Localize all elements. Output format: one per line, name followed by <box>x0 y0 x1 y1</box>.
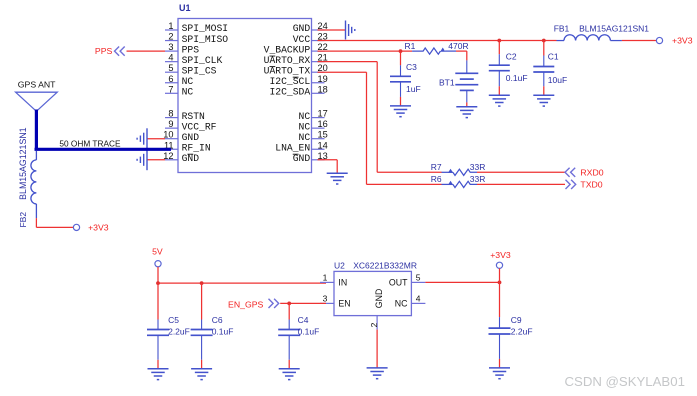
svg-text:5V: 5V <box>152 247 163 257</box>
svg-text:3: 3 <box>323 293 328 303</box>
svg-text:4: 4 <box>168 53 173 63</box>
svg-text:C1: C1 <box>548 52 559 62</box>
svg-text:SPI_MISO: SPI_MISO <box>182 34 229 45</box>
svg-text:0.1uF: 0.1uF <box>212 327 234 337</box>
svg-text:I2C_SDA: I2C_SDA <box>269 87 310 98</box>
svg-text:C9: C9 <box>511 315 522 325</box>
svg-text:5: 5 <box>168 63 173 73</box>
svg-text:16: 16 <box>318 119 328 129</box>
svg-text:XC6221B332MR: XC6221B332MR <box>353 260 417 270</box>
svg-text:0.1uF: 0.1uF <box>298 327 320 337</box>
svg-text:NC: NC <box>299 132 311 143</box>
svg-text:R7: R7 <box>431 162 442 172</box>
svg-text:2: 2 <box>369 322 379 327</box>
svg-text:FB1: FB1 <box>554 23 570 33</box>
svg-text:RXD0: RXD0 <box>580 168 603 178</box>
svg-text:4: 4 <box>416 293 421 303</box>
svg-text:BT1: BT1 <box>439 77 455 87</box>
svg-text:GND: GND <box>374 289 384 309</box>
svg-text:3: 3 <box>168 42 173 52</box>
svg-text:CSDN @SKYLAB01: CSDN @SKYLAB01 <box>565 374 685 389</box>
svg-text:1: 1 <box>323 272 328 282</box>
svg-text:R6: R6 <box>431 174 442 184</box>
svg-text:1: 1 <box>168 21 173 31</box>
svg-text:V_BACKUP: V_BACKUP <box>264 44 311 55</box>
svg-text:18: 18 <box>318 84 328 94</box>
svg-text:C4: C4 <box>298 315 309 325</box>
svg-text:2: 2 <box>168 32 173 42</box>
svg-text:SPI_CLK: SPI_CLK <box>182 55 223 66</box>
svg-text:PPS: PPS <box>95 46 113 56</box>
svg-text:C2: C2 <box>506 52 517 62</box>
svg-text:R1: R1 <box>405 41 416 51</box>
svg-text:33R: 33R <box>470 174 486 184</box>
svg-text:RF_IN: RF_IN <box>182 142 211 153</box>
svg-text:15: 15 <box>318 130 328 140</box>
svg-text:RSTN: RSTN <box>182 111 205 122</box>
svg-text:C5: C5 <box>168 315 179 325</box>
svg-text:9: 9 <box>168 119 173 129</box>
svg-text:U2: U2 <box>334 260 345 270</box>
svg-text:NC: NC <box>395 299 408 309</box>
svg-text:GPS ANT: GPS ANT <box>18 80 56 90</box>
svg-text:NC: NC <box>299 111 311 122</box>
svg-text:C3: C3 <box>406 62 417 72</box>
svg-text:NC: NC <box>182 76 194 87</box>
svg-text:10uF: 10uF <box>548 75 567 85</box>
svg-text:470R: 470R <box>448 41 468 51</box>
svg-text:50 OHM TRACE: 50 OHM TRACE <box>59 139 121 149</box>
svg-text:7: 7 <box>168 84 173 94</box>
svg-text:5: 5 <box>416 272 421 282</box>
svg-text:NC: NC <box>182 87 194 98</box>
svg-text:VCC_RF: VCC_RF <box>182 121 217 132</box>
svg-text:IN: IN <box>338 278 347 288</box>
svg-text:SPI_CS: SPI_CS <box>182 65 217 76</box>
svg-text:14: 14 <box>318 140 328 150</box>
svg-text:19: 19 <box>318 74 328 84</box>
svg-text:+3V3: +3V3 <box>672 36 693 46</box>
svg-text:1uF: 1uF <box>406 84 421 94</box>
svg-text:OUT: OUT <box>389 278 408 288</box>
svg-text:2.2uF: 2.2uF <box>511 327 533 337</box>
svg-text:C6: C6 <box>212 315 223 325</box>
svg-text:EN: EN <box>338 299 350 309</box>
svg-text:+3V3: +3V3 <box>490 250 511 260</box>
svg-text:BLM15AG121SN1: BLM15AG121SN1 <box>18 127 28 199</box>
svg-text:PPS: PPS <box>182 44 200 55</box>
svg-text:8: 8 <box>168 109 173 119</box>
svg-text:VCC: VCC <box>293 34 311 45</box>
svg-text:EN_GPS: EN_GPS <box>228 300 263 310</box>
svg-text:LNA_EN: LNA_EN <box>275 142 310 153</box>
svg-text:TXD0: TXD0 <box>580 180 602 190</box>
svg-text:6: 6 <box>168 74 173 84</box>
svg-text:BLM15AG121SN1: BLM15AG121SN1 <box>579 24 649 34</box>
svg-text:17: 17 <box>318 109 328 119</box>
svg-text:GND: GND <box>182 132 200 143</box>
svg-text:33R: 33R <box>470 162 486 172</box>
svg-text:UARTO_TX: UARTO_TX <box>264 65 311 76</box>
svg-text:+3V3: +3V3 <box>88 223 109 233</box>
svg-text:NC: NC <box>299 121 311 132</box>
svg-text:0.1uF: 0.1uF <box>506 73 528 83</box>
svg-text:I2C_SCL: I2C_SCL <box>269 76 310 87</box>
svg-text:SPI_MOSI: SPI_MOSI <box>182 23 229 34</box>
svg-text:U1: U1 <box>179 3 191 13</box>
svg-text:2.2uF: 2.2uF <box>168 327 190 337</box>
svg-text:GND: GND <box>293 23 311 34</box>
svg-text:FB2: FB2 <box>18 212 28 228</box>
